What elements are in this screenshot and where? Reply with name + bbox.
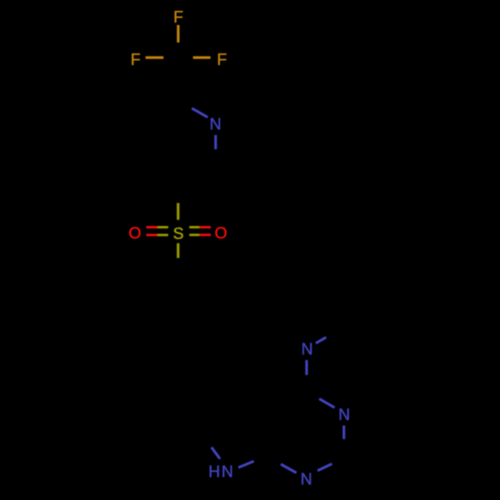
svg-text:S: S	[173, 225, 184, 243]
bond N pyridine lower	[214, 135, 217, 149]
bond F3-C	[193, 56, 211, 59]
bond F1-C	[177, 25, 180, 43]
svg-text:N: N	[300, 471, 312, 489]
bond C-N pyridine upper	[192, 108, 208, 117]
svg-text:H: H	[209, 463, 221, 481]
svg-text:N: N	[210, 116, 222, 134]
bond N7-C7a	[238, 461, 253, 467]
bond S-CH3	[177, 243, 180, 258]
svg-text:N: N	[222, 463, 234, 481]
svg-text:F: F	[173, 8, 183, 26]
double bond S=O left line2	[146, 234, 157, 236]
bond C2-N1	[318, 464, 333, 471]
double bond S=O left line1	[146, 226, 157, 228]
double bond S=O right line2	[189, 234, 199, 236]
bond N amine - C4	[305, 360, 308, 375]
bond N7-C6	[212, 447, 221, 459]
bond C-S upper	[177, 203, 180, 220]
bond N amine - CH3	[316, 337, 326, 343]
bond F2-C	[146, 56, 164, 59]
svg-text:O: O	[215, 225, 228, 243]
bond C4-N3	[319, 399, 334, 408]
svg-text:F: F	[217, 51, 227, 69]
svg-text:O: O	[129, 225, 142, 243]
svg-text:F: F	[131, 51, 141, 69]
bond C7a-N1	[281, 464, 297, 473]
svg-text:N: N	[301, 341, 313, 359]
double bond S=O right line1	[189, 226, 199, 228]
svg-text:N: N	[338, 406, 350, 424]
bond N3-C2	[343, 426, 346, 440]
